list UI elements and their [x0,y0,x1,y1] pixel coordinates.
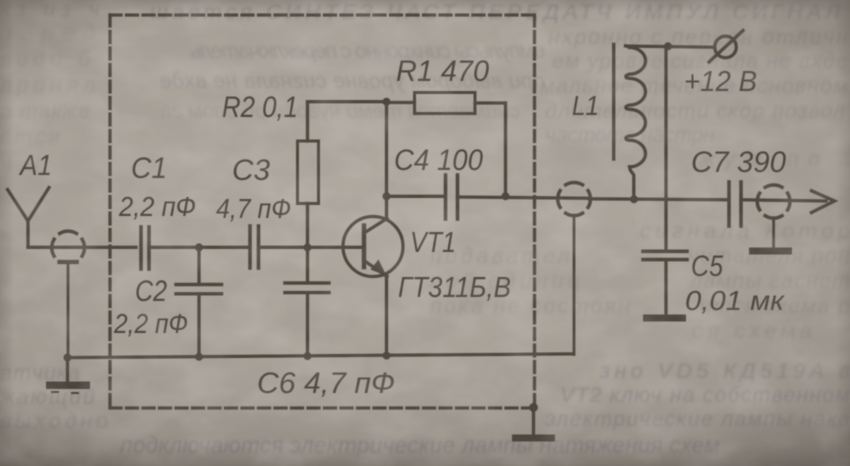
node bus C6 [304,352,312,360]
connector XW1 (input coax) [52,231,85,357]
ground symbol left [46,357,90,393]
inductor L1 [626,46,646,199]
node C5 tap on rail [664,42,672,50]
inductor L1 core line [612,45,615,160]
node bus emitter [383,352,391,360]
node collector / C4 junction [383,192,391,200]
wire antenna to connector XW1 [28,246,136,249]
capacitor C5 [643,46,687,315]
node at C2 tap [195,243,203,251]
wire C3 to base [259,246,363,249]
wire emitter to ground bus [385,276,388,356]
wire R2 top to collector node [308,100,387,103]
capacitor C4 [446,175,458,219]
node bus C2 [195,353,203,361]
output arrowhead [812,191,835,213]
ground symbol under XW3 [749,248,792,255]
wire collector vertical [385,102,388,218]
+12V supply rail [627,46,715,47]
resistor R2 [298,102,319,247]
ground symbol under C5 [643,315,686,322]
capacitor C3 [250,226,259,268]
wire XW2 to L1 tap to C7 [589,199,728,200]
wire C4 line left [387,195,444,198]
connector XW2 (output coax) [558,182,591,354]
wire shield corner to ground [532,408,535,436]
node R1 right leg to output line [502,192,510,200]
transistor VT1 [343,217,403,277]
wire C4 to connector XW2 [458,197,590,198]
wire C7 to output arrow [741,200,826,201]
ground bus wire [68,354,574,358]
shield box (dashed) [110,15,535,408]
capacitor C1 [141,227,149,269]
shield ground node at dashed box corner [529,403,538,412]
node at R2/C6 tap [304,243,312,251]
ground symbol shield [512,435,555,442]
capacitor C6 [285,247,329,357]
resistor R1 [387,93,506,197]
node bus left end [64,354,72,362]
node L1 bottom tap [630,195,638,203]
connector XW3 (far output coax) [757,185,790,248]
node collector top [383,98,391,106]
capacitor C2 [176,247,222,357]
shading overlays [0,0,1,1]
antenna A1 [8,188,50,248]
wire C1 to C3 [149,246,249,249]
capacitor C7 [729,182,741,226]
terminal +12 V [709,31,743,63]
